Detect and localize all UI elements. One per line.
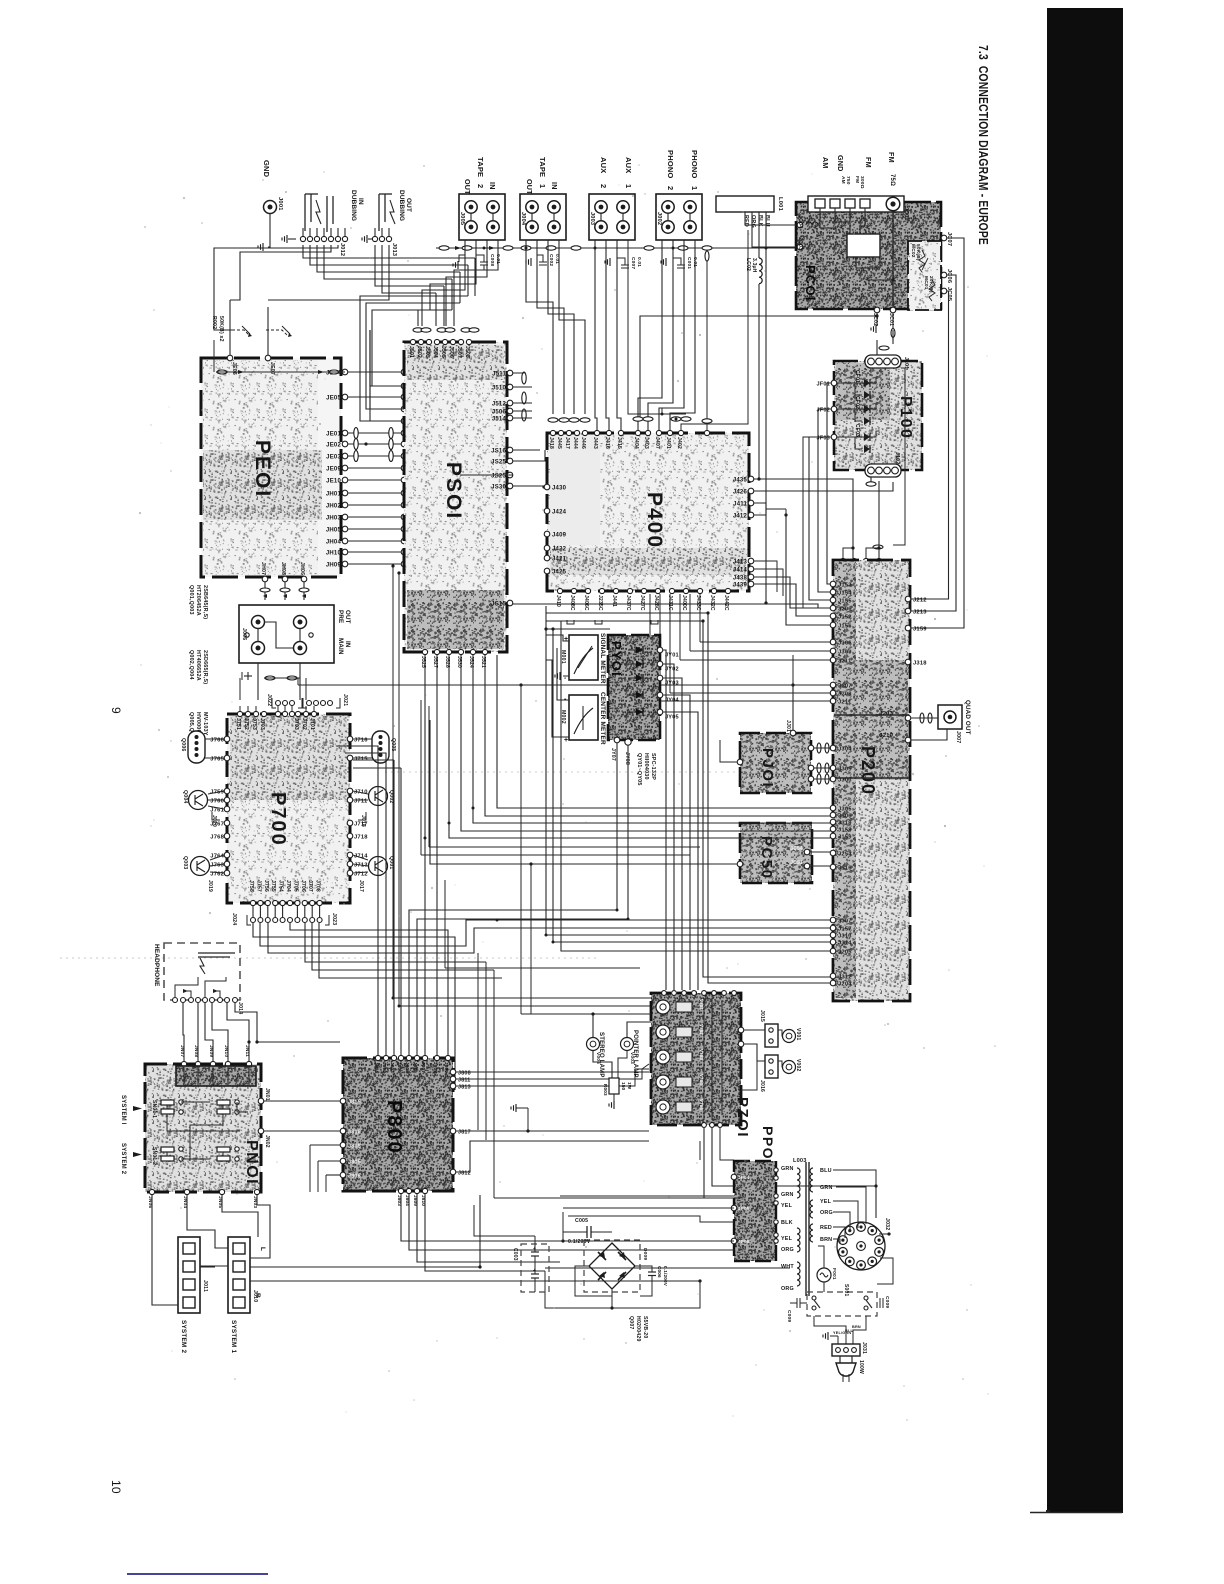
transformer secondary coils xyxy=(810,1168,813,1192)
svg-text:J805: J805 xyxy=(348,1159,361,1165)
P400 left edge connectors xyxy=(544,484,550,490)
svg-text:JH01: JH01 xyxy=(326,491,342,497)
svg-text:PEOI: PEOI xyxy=(251,440,274,498)
svg-text:AUX: AUX xyxy=(624,157,633,173)
P800 top edge connectors xyxy=(375,1055,380,1060)
svg-text:J751: J751 xyxy=(235,718,241,730)
svg-text:JE06: JE06 xyxy=(231,362,237,375)
svg-text:J407: J407 xyxy=(654,437,660,449)
svg-text:J032: J032 xyxy=(884,1218,890,1230)
JE/JH to JS row ladder between PE01 and PS01 xyxy=(342,369,348,375)
svg-text:J764: J764 xyxy=(210,853,224,859)
svg-text:R: R xyxy=(254,1293,261,1298)
svg-text:V001: V001 xyxy=(795,1028,801,1040)
ground near PZ01 left xyxy=(516,1107,528,1109)
svg-text:JY02: JY02 xyxy=(665,667,679,673)
svg-text:J704: J704 xyxy=(285,880,291,892)
svg-text:J808: J808 xyxy=(433,1062,438,1073)
svg-text:SN01-2: SN01-2 xyxy=(151,1147,157,1165)
svg-text:1: 1 xyxy=(624,184,633,188)
svg-text:J505: J505 xyxy=(440,346,446,358)
svg-text:J806: J806 xyxy=(348,1173,361,1179)
ferrite beads on ladder rows xyxy=(354,428,358,439)
svg-text:J159: J159 xyxy=(913,626,927,632)
PZ01 dial lamps xyxy=(656,1000,670,1014)
svg-text:J506: J506 xyxy=(448,346,454,358)
svg-text:JC06: JC06 xyxy=(946,269,952,283)
wires aux to P400 top xyxy=(595,240,597,430)
svg-text:JY01: JY01 xyxy=(665,653,679,659)
wires J413..J439 to P200 left xyxy=(754,584,831,616)
svg-text:50K(B): 50K(B) xyxy=(915,244,921,261)
svg-text:C002: C002 xyxy=(548,254,554,266)
svg-text:CF03: CF03 xyxy=(854,424,860,437)
svg-text:OUT: OUT xyxy=(525,179,534,195)
svg-text:J304: J304 xyxy=(838,746,852,752)
svg-text:P400: P400 xyxy=(643,492,666,549)
PC01 inner IC box xyxy=(847,234,880,257)
block PC50 xyxy=(740,823,812,883)
P200 top edge connectors xyxy=(840,558,845,563)
resistor R003 150 1W xyxy=(609,1078,619,1094)
svg-text:+: + xyxy=(564,737,568,744)
jack box J003 (AUX) xyxy=(589,194,635,240)
cap C001 on phono lines xyxy=(673,258,681,265)
svg-text:JC51: JC51 xyxy=(790,860,803,866)
svg-text:V003: V003 xyxy=(629,1052,635,1064)
block P100 xyxy=(834,361,922,470)
PS01 top edge connectors J501-J509 xyxy=(410,339,415,344)
P800 left edge connectors xyxy=(340,1098,346,1104)
cap C009 right xyxy=(879,1298,881,1308)
cap C008 on tape2 lines xyxy=(476,255,484,262)
connector J021 xyxy=(307,701,312,706)
jack box J005 (TAPE2) xyxy=(459,194,505,240)
svg-text:J432C: J432C xyxy=(709,595,715,611)
svg-text:J207: J207 xyxy=(838,683,852,689)
P200 left edge connectors upper xyxy=(830,581,836,587)
svg-text:J403: J403 xyxy=(643,437,649,449)
block PS01 xyxy=(404,342,507,652)
svg-text:J211: J211 xyxy=(838,658,852,664)
cap C002 on tape1 lines xyxy=(537,255,543,262)
svg-text:DUBBING: DUBBING xyxy=(398,190,405,221)
meter wiring xyxy=(546,635,569,641)
white box L001 xyxy=(716,196,774,212)
coil LC02 3.3uH xyxy=(759,258,762,284)
svg-text:JE10: JE10 xyxy=(326,478,341,484)
selector wires from secondary xyxy=(833,1170,876,1218)
transistor Q002 xyxy=(369,787,388,806)
svg-text:J411: J411 xyxy=(733,501,747,507)
svg-text:J318: J318 xyxy=(913,660,927,666)
svg-text:GRN: GRN xyxy=(781,1192,794,1198)
PZ01 inner wiring xyxy=(703,998,705,1120)
headphone dashed box xyxy=(164,943,240,1000)
block PJ01 xyxy=(740,733,811,793)
svg-text:J006: J006 xyxy=(241,628,247,640)
scan noise speckles xyxy=(139,164,996,1421)
svg-text:J158: J158 xyxy=(838,827,852,833)
JF wires down to P200 rows xyxy=(827,383,831,584)
bridge wires xyxy=(612,1281,700,1308)
svg-text:J412: J412 xyxy=(733,513,748,519)
svg-text:GRN: GRN xyxy=(820,1185,833,1191)
svg-text:J702: J702 xyxy=(301,718,307,730)
svg-text:50K(B) x2: 50K(B) x2 xyxy=(218,316,224,342)
svg-text:P200: P200 xyxy=(858,746,878,796)
P700 left edge connectors xyxy=(224,736,230,742)
cap C006 xyxy=(635,1266,652,1272)
svg-text:J212: J212 xyxy=(913,597,927,603)
svg-text:J512: J512 xyxy=(492,401,507,407)
block P400 xyxy=(547,433,749,591)
svg-text:J018: J018 xyxy=(360,815,366,827)
svg-text:J421: J421 xyxy=(552,556,567,562)
P700 right edge connectors xyxy=(347,736,353,742)
system connector strips xyxy=(178,1237,200,1313)
svg-text:J156: J156 xyxy=(838,623,852,629)
svg-text:JH05: JH05 xyxy=(326,527,342,533)
svg-text:J705: J705 xyxy=(292,880,298,892)
P100 left edge connectors JF01-JF03 xyxy=(831,380,837,386)
svg-text:PYOI: PYOI xyxy=(609,641,624,677)
PY01 diodes xyxy=(636,647,643,654)
svg-text:BLU: BLU xyxy=(845,1329,853,1333)
block P800 xyxy=(343,1058,453,1191)
svg-text:J706: J706 xyxy=(300,880,306,892)
svg-text:P700: P700 xyxy=(267,792,289,847)
JY07 JY08 drops to P800 top xyxy=(409,743,617,1055)
svg-text:J768: J768 xyxy=(210,834,224,840)
svg-text:J021: J021 xyxy=(342,694,348,706)
svg-text:IN: IN xyxy=(344,641,351,648)
svg-text:J716: J716 xyxy=(354,737,368,743)
connector J102 on P100 bottom xyxy=(865,464,901,477)
svg-text:R003: R003 xyxy=(603,1084,608,1096)
connector J024 xyxy=(251,918,256,923)
svg-text:Q004: Q004 xyxy=(182,790,188,804)
svg-text:J022: J022 xyxy=(266,694,272,706)
PE01 bottom connectors JH07 JH08 JH06 xyxy=(262,576,268,582)
svg-text:JE09: JE09 xyxy=(326,466,341,472)
svg-text:J417: J417 xyxy=(564,437,570,449)
svg-text:9: 9 xyxy=(109,707,123,714)
svg-text:J101: J101 xyxy=(903,357,909,369)
svg-text:ORG: ORG xyxy=(820,1210,833,1216)
svg-text:J756: J756 xyxy=(263,880,269,892)
svg-text:JY05: JY05 xyxy=(665,715,679,721)
svg-text:YEL: YEL xyxy=(781,1236,793,1242)
cap C005 xyxy=(563,1231,587,1233)
wires J435 J426 routing xyxy=(754,479,853,558)
mesh nested elbows to PS01 rows xyxy=(372,310,452,386)
svg-text:J765: J765 xyxy=(210,756,224,762)
wires PN01 bottom to system strips xyxy=(152,1195,178,1305)
voltage selector J032 xyxy=(837,1222,885,1270)
jack box J004 (TAPE1) xyxy=(520,194,566,240)
P400 right edge connectors upper xyxy=(748,476,754,482)
svg-text:J754: J754 xyxy=(278,880,284,892)
junction dots on buses xyxy=(424,837,427,840)
jack box J002 (PHONO) xyxy=(656,194,702,240)
svg-text:JN11: JN11 xyxy=(244,1045,250,1057)
svg-text:HT406652A: HT406652A xyxy=(195,650,201,681)
svg-text:J406C: J406C xyxy=(583,595,589,611)
connector J015 xyxy=(765,1024,778,1047)
svg-text:Q005: Q005 xyxy=(390,738,396,752)
svg-text:JN09: JN09 xyxy=(208,1045,214,1057)
svg-text:J809: J809 xyxy=(444,1062,449,1073)
svg-text:2SB645(R,S): 2SB645(R,S) xyxy=(202,585,208,619)
svg-text:FM: FM xyxy=(887,152,896,163)
svg-text:J413: J413 xyxy=(733,559,748,565)
AC plug xyxy=(839,1356,841,1363)
svg-text:PC50: PC50 xyxy=(758,836,775,880)
svg-text:J024: J024 xyxy=(231,913,237,925)
long horizontals lower mid xyxy=(393,997,660,999)
svg-text:J316: J316 xyxy=(838,865,852,871)
svg-text:JS30: JS30 xyxy=(491,484,506,490)
mesh horizontal bus with arrows xyxy=(213,340,215,372)
vertical from bus to lamp row xyxy=(520,685,522,1014)
svg-text:Q001: Q001 xyxy=(388,856,394,870)
svg-text:J441: J441 xyxy=(611,595,617,607)
svg-text:JS16: JS16 xyxy=(491,448,506,454)
svg-text:J402: J402 xyxy=(676,437,682,449)
svg-text:J208: J208 xyxy=(838,691,852,697)
svg-text:J319: J319 xyxy=(838,820,852,826)
svg-text:J753: J753 xyxy=(251,718,257,730)
wires J014 to PN01 top xyxy=(183,1003,184,1061)
svg-text:JE05: JE05 xyxy=(326,395,341,401)
svg-text:J314: J314 xyxy=(838,940,852,946)
PN01 top edge connectors xyxy=(181,1061,186,1066)
svg-text:J017: J017 xyxy=(358,880,364,892)
svg-text:J435: J435 xyxy=(733,477,748,483)
svg-text:J203: J203 xyxy=(879,711,893,717)
svg-text:SYSTEM 2: SYSTEM 2 xyxy=(120,1143,126,1175)
svg-text:PNOI: PNOI xyxy=(243,1140,260,1185)
verticals from PS01 bottom to P800 top xyxy=(424,655,426,1055)
connector JC07 xyxy=(941,235,947,241)
svg-text:75Ω: 75Ω xyxy=(889,174,895,186)
black scan bar at right edge xyxy=(1047,8,1123,1513)
svg-text:J306: J306 xyxy=(838,813,852,819)
svg-text:J504: J504 xyxy=(432,346,438,358)
svg-text:7.3 CONNECTION DIAGRAM - EURO: 7.3 CONNECTION DIAGRAM - EUROPE xyxy=(976,45,991,245)
svg-text:BLK: BLK xyxy=(781,1220,793,1226)
svg-text:J157: J157 xyxy=(838,926,852,932)
PC01 antenna terminal strip xyxy=(808,196,904,212)
svg-text:JH10: JH10 xyxy=(326,550,342,556)
svg-text:JE03: JE03 xyxy=(326,454,341,460)
switch S001 dashed box xyxy=(807,1292,877,1316)
svg-text:J811: J811 xyxy=(458,1077,471,1083)
svg-text:J443: J443 xyxy=(592,437,598,449)
svg-text:J755: J755 xyxy=(270,880,276,892)
P400 bottom edge connectors xyxy=(557,588,562,593)
wires phono to P400 top xyxy=(638,240,662,430)
svg-text:MAIN: MAIN xyxy=(337,638,344,655)
wire drops from J024/J023 to lower buses xyxy=(253,923,455,1090)
svg-text:Q002,Q004: Q002,Q004 xyxy=(188,650,194,680)
svg-text:J503: J503 xyxy=(424,346,430,358)
svg-text:C003: C003 xyxy=(512,1248,518,1261)
svg-text:J805: J805 xyxy=(405,1062,410,1073)
long wire pre/main bus to PJ01 top xyxy=(298,685,793,733)
svg-text:V701: V701 xyxy=(699,999,704,1010)
svg-text:WHT: WHT xyxy=(781,1264,794,1270)
svg-text:J415: J415 xyxy=(616,437,622,449)
svg-text:J159: J159 xyxy=(838,834,852,840)
svg-text:10: 10 xyxy=(109,1480,123,1494)
P100 varicap diodes CF01-CF03 xyxy=(837,382,876,384)
connector J101 on P100 top xyxy=(865,355,901,368)
svg-text:J816: J816 xyxy=(348,1129,361,1135)
block PE01 xyxy=(201,358,341,577)
svg-text:J444: J444 xyxy=(572,437,578,449)
svg-text:J154: J154 xyxy=(838,590,852,596)
PP01 left edge connectors xyxy=(731,1174,737,1180)
svg-text:V703: V703 xyxy=(699,1049,704,1060)
svg-text:J012: J012 xyxy=(339,243,345,256)
svg-text:J801: J801 xyxy=(374,1062,379,1073)
svg-text:FM: FM xyxy=(864,157,873,168)
beads above PS01 top edge xyxy=(413,328,423,332)
connector J016 xyxy=(765,1055,778,1078)
PC01 connector JC04 and coil xyxy=(797,222,803,228)
svg-text:L: L xyxy=(259,1247,266,1251)
cap C007 on aux lines xyxy=(617,258,625,265)
block PN01 xyxy=(145,1064,261,1192)
svg-text:JY07: JY07 xyxy=(610,748,616,761)
block PZ01 xyxy=(651,993,741,1125)
headphone jack symbol xyxy=(198,952,235,954)
svg-text:2: 2 xyxy=(476,184,485,188)
svg-text:300Ω: 300Ω xyxy=(859,176,865,189)
svg-text:J003: J003 xyxy=(589,212,595,225)
svg-text:GND: GND xyxy=(836,155,845,172)
block P700 xyxy=(227,714,350,903)
svg-text:BRN: BRN xyxy=(820,1237,832,1243)
cap C003 dashed xyxy=(521,1244,549,1292)
wires JN01 JN02 to P800 xyxy=(264,1100,340,1102)
svg-text:J422: J422 xyxy=(552,546,567,552)
svg-text:JY08: JY08 xyxy=(624,752,630,765)
PN01 top inner connector strip xyxy=(176,1066,256,1086)
wires S001 to J031 xyxy=(814,1316,846,1344)
wires above meters xyxy=(546,613,831,983)
wires P800 bottom to power section xyxy=(401,1194,563,1241)
svg-text:J446: J446 xyxy=(580,437,586,449)
svg-text:V705: V705 xyxy=(699,1099,704,1110)
wires tape2 to PS01 top beads xyxy=(422,240,465,326)
svg-text:BLU: BLU xyxy=(820,1168,832,1174)
pointer lamp V003 xyxy=(621,1038,634,1051)
svg-text:J020: J020 xyxy=(211,815,217,827)
svg-text:J437C: J437C xyxy=(625,595,631,611)
connector JC05 xyxy=(941,288,947,294)
transistor Q006 package xyxy=(188,731,205,763)
connector J022 xyxy=(276,701,281,706)
svg-text:3.3μH: 3.3μH xyxy=(751,258,757,273)
wires into P800 left xyxy=(310,1144,340,1146)
svg-text:J511: J511 xyxy=(492,371,506,377)
svg-text:100W: 100W xyxy=(858,1360,864,1374)
wires into P200 left rows 642-660 xyxy=(700,641,831,643)
svg-text:DUBBING: DUBBING xyxy=(350,190,357,221)
svg-text:Q002: Q002 xyxy=(388,790,394,804)
P100 connections top to PC01 xyxy=(876,340,878,355)
svg-text:PHONO: PHONO xyxy=(690,150,699,179)
svg-text:JH07: JH07 xyxy=(260,562,266,575)
svg-text:JP05: JP05 xyxy=(738,1206,750,1211)
svg-text:JN07: JN07 xyxy=(179,1045,185,1057)
svg-text:C009: C009 xyxy=(884,1296,890,1308)
svg-text:J757: J757 xyxy=(255,880,261,892)
svg-text:LC02: LC02 xyxy=(745,258,751,271)
svg-text:TAPE: TAPE xyxy=(538,157,547,177)
svg-text:C007: C007 xyxy=(630,257,636,269)
P800 right edge connectors xyxy=(450,1069,456,1075)
svg-text:SYSTEM 2: SYSTEM 2 xyxy=(180,1320,187,1353)
connector J013 xyxy=(372,236,377,241)
svg-text:J309: J309 xyxy=(838,649,852,655)
svg-text:0.01: 0.01 xyxy=(692,257,698,267)
svg-text:J102: J102 xyxy=(894,452,900,464)
svg-text:JF01: JF01 xyxy=(816,381,830,387)
svg-text:PJOI: PJOI xyxy=(759,748,776,788)
svg-text:AM: AM xyxy=(821,157,830,169)
svg-text:J418: J418 xyxy=(548,437,554,449)
transformer primary coils xyxy=(797,1168,800,1198)
bead bus row under jack boxes xyxy=(436,247,795,249)
PC01 connector JC03 xyxy=(797,244,803,250)
svg-text:MV-103Y: MV-103Y xyxy=(202,712,208,736)
svg-text:1: 1 xyxy=(690,186,699,190)
svg-text:J005: J005 xyxy=(459,212,465,225)
svg-text:J701: J701 xyxy=(309,718,315,730)
svg-text:J015: J015 xyxy=(759,1010,765,1022)
svg-text:J760: J760 xyxy=(210,798,224,804)
PY01 bottom connectors JY07 JY08 xyxy=(614,737,620,743)
svg-text:JE01: JE01 xyxy=(326,431,341,437)
svg-text:J210: J210 xyxy=(879,733,893,739)
svg-text:J153: J153 xyxy=(838,582,852,588)
svg-text:J414: J414 xyxy=(733,567,748,573)
svg-text:PCOI: PCOI xyxy=(803,265,818,302)
stereo lamp V005 xyxy=(587,1038,600,1051)
P200 left edge connectors lower xyxy=(830,745,836,751)
svg-text:SYSTEM 1: SYSTEM 1 xyxy=(230,1320,237,1353)
svg-text:J002: J002 xyxy=(656,212,662,225)
dubbing out jack xyxy=(378,194,380,231)
wires J022/J021 into P700 top xyxy=(277,706,279,714)
svg-text:CENTER METER: CENTER METER xyxy=(599,692,606,745)
ground stub left of J012 xyxy=(288,238,296,240)
svg-text:J313: J313 xyxy=(838,933,852,939)
svg-text:J752: J752 xyxy=(243,718,249,730)
svg-text:0.01: 0.01 xyxy=(636,257,642,267)
wires L001 to PC01 and P400 right xyxy=(745,212,796,225)
svg-text:JS25: JS25 xyxy=(491,459,506,465)
block PY01 xyxy=(608,635,660,740)
block P200 xyxy=(833,560,910,1001)
svg-text:J808: J808 xyxy=(458,1070,471,1076)
PC01 internal wires xyxy=(819,208,821,228)
volume pot block MC01 MC02 xyxy=(908,241,941,310)
